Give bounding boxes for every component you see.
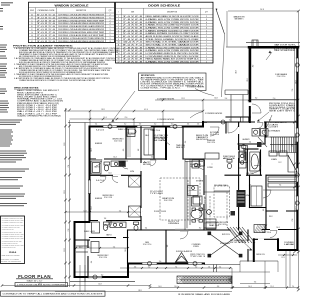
svg-text:6'-8: 6'-8 <box>138 149 140 152</box>
left section exterior <box>75 122 298 278</box>
great room tray <box>160 178 200 220</box>
wind zone notes <box>14 88 63 118</box>
svg-text:1: 1 <box>110 26 111 28</box>
svg-text:SHELF + ROD: SHELF + ROD <box>84 231 95 233</box>
svg-text:11'-0: 11'-0 <box>64 142 66 145</box>
svg-text:1: 1 <box>206 16 207 18</box>
svg-text:SEE INT ELEV: SEE INT ELEV <box>196 139 208 141</box>
svg-text:6'-4: 6'-4 <box>145 227 148 229</box>
svg-text:5'-4: 5'-4 <box>249 141 252 143</box>
svg-text:PORCH: PORCH <box>193 246 198 248</box>
svg-text:LOUVERED BIFOLD WOOD DOOR: LOUVERED BIFOLD WOOD DOOR <box>146 56 201 58</box>
svg-text:BEDROOM 3: BEDROOM 3 <box>113 139 124 141</box>
svg-text:2: 2 <box>118 19 119 21</box>
svg-text:4'-4: 4'-4 <box>91 261 93 264</box>
svg-text:6'-0 X 5'-0: 6'-0 X 5'-0 <box>37 29 55 31</box>
svg-text:24'-8: 24'-8 <box>38 284 41 286</box>
svg-text:ROOF ZONE 3 +16.0 / -65.4 PSF: ROOF ZONE 3 +16.0 / -65.4 PSF <box>17 109 57 111</box>
svg-text:SEE STRUCT NOTES: SEE STRUCT NOTES <box>2 255 20 257</box>
leader arrow <box>216 9 225 34</box>
svg-text:5'-0: 5'-0 <box>159 261 162 263</box>
pantry shelves <box>240 146 248 163</box>
svg-text:5'-4: 5'-4 <box>219 266 222 268</box>
svg-text:COVERED: COVERED <box>192 244 202 246</box>
svg-text:3: 3 <box>206 27 207 29</box>
svg-text:W/ STUCCO: W/ STUCCO <box>230 242 248 244</box>
door schedule table <box>116 2 214 63</box>
svg-text:10'-4: 10'-4 <box>276 227 279 229</box>
svg-text:8X8 COL: 8X8 COL <box>222 234 230 236</box>
svg-text:21'-4 X 21'-0: 21'-4 X 21'-0 <box>277 76 286 78</box>
svg-text:OPENING SIZE: OPENING SIZE <box>38 10 55 12</box>
svg-text:7'-4: 7'-4 <box>175 266 178 268</box>
svg-text:W.I.C.: W.I.C. <box>131 133 136 135</box>
svg-text:LOUVERED BIFOLD WOOD DOOR: LOUVERED BIFOLD WOOD DOOR <box>146 53 201 55</box>
svg-text:3'-0 X 2'-0: 3'-0 X 2'-0 <box>37 32 55 34</box>
svg-text:5'-0: 5'-0 <box>229 119 232 121</box>
svg-text:2: 2 <box>206 59 207 61</box>
svg-text:12'-8: 12'-8 <box>64 190 66 193</box>
svg-text:1: 1 <box>206 39 207 41</box>
svg-text:DESCRIPTION: DESCRIPTION <box>167 12 177 14</box>
svg-text:9-4 CLG: 9-4 CLG <box>96 180 104 182</box>
plan note texts <box>96 44 296 258</box>
svg-text:30'-8: 30'-8 <box>236 70 238 73</box>
master bath fixtures <box>227 151 297 172</box>
interior walls right section <box>183 117 297 230</box>
svg-text:2: 2 <box>206 50 207 52</box>
svg-text:6'-8: 6'-8 <box>292 219 294 222</box>
svg-text:1: 1 <box>206 33 207 35</box>
svg-text:12'-0: 12'-0 <box>108 173 111 175</box>
svg-text:7'-6: 7'-6 <box>279 184 282 186</box>
closet shelves <box>210 177 296 226</box>
svg-text:10'-4: 10'-4 <box>113 156 116 158</box>
svg-text:2'-8 X 6'-8: 2'-8 X 6'-8 <box>123 39 142 41</box>
svg-text:15: 15 <box>118 56 120 58</box>
porch step hatch <box>177 276 232 284</box>
svg-text:8'-0: 8'-0 <box>253 65 255 68</box>
svg-text:9'-0: 9'-0 <box>292 89 294 92</box>
svg-text:3: 3 <box>110 41 111 43</box>
door arcs <box>96 104 277 239</box>
stairs <box>257 137 297 153</box>
wall dim texts <box>91 78 282 276</box>
svg-text:1: 1 <box>206 53 207 55</box>
bath 2 fixtures <box>92 222 139 233</box>
svg-text:WINDOW SCHEDULE: WINDOW SCHEDULE <box>55 3 89 7</box>
svg-text:2'-0 X 6'-8: 2'-0 X 6'-8 <box>123 53 142 55</box>
svg-text:3'-0 X 5'-0: 3'-0 X 5'-0 <box>37 41 55 43</box>
svg-text:4'-0 X 6'-8: 4'-0 X 6'-8 <box>123 56 142 58</box>
svg-text:4'-8: 4'-8 <box>187 124 190 126</box>
svg-text:2: 2 <box>110 14 111 16</box>
svg-text:5'-6: 5'-6 <box>113 246 115 248</box>
svg-text:BEDROOM 4: BEDROOM 4 <box>103 195 114 197</box>
svg-text:16'-0 X 7'-0: 16'-0 X 7'-0 <box>123 42 142 44</box>
svg-text:7: 7 <box>118 33 119 35</box>
svg-text:2'-0: 2'-0 <box>273 98 276 100</box>
kitchen counters <box>185 160 216 229</box>
svg-text:8'-0: 8'-0 <box>125 117 128 119</box>
svg-text:FOYER: FOYER <box>210 132 219 134</box>
svg-text:14'-8: 14'-8 <box>98 284 101 286</box>
svg-text:1: 1 <box>110 38 111 40</box>
svg-text:8'-0 X 5'-0: 8'-0 X 5'-0 <box>37 38 55 40</box>
svg-text:5: 5 <box>118 27 119 29</box>
svg-text:16-0 X 7-0 OH DOOR: 16-0 X 7-0 OH DOOR <box>274 46 295 48</box>
svg-text:9'-4: 9'-4 <box>225 98 228 100</box>
svg-text:KITCHEN: KITCHEN <box>196 181 204 183</box>
svg-text:24'-8: 24'-8 <box>260 9 264 11</box>
svg-text:21'-8: 21'-8 <box>181 98 184 100</box>
exterior walls garage <box>226 40 298 250</box>
bath 3 fixtures <box>91 161 126 174</box>
fireplace <box>254 225 267 233</box>
svg-text:9'-8: 9'-8 <box>254 282 257 284</box>
svg-text:SEE DET: SEE DET <box>176 147 185 149</box>
kitchen <box>185 153 230 230</box>
svg-text:GREAT ROOM: GREAT ROOM <box>162 197 175 200</box>
svg-text:4: 4 <box>206 22 207 24</box>
svg-text:12'-0 X 12'-0: 12'-0 X 12'-0 <box>143 244 152 246</box>
svg-text:1: 1 <box>206 61 207 63</box>
svg-text:SEE DET SHT 5: SEE DET SHT 5 <box>269 111 296 113</box>
powder room <box>241 145 246 149</box>
svg-text:5'-4: 5'-4 <box>119 210 122 212</box>
svg-text:10: 10 <box>118 42 120 44</box>
porch triangles <box>176 253 188 263</box>
svg-text:9: 9 <box>206 19 207 21</box>
svg-text:SIZE: SIZE <box>131 12 134 14</box>
nook table <box>191 208 203 222</box>
svg-text:17: 17 <box>118 61 120 63</box>
svg-text:W.I.C.: W.I.C. <box>79 247 84 249</box>
svg-text:6'-0: 6'-0 <box>101 274 104 276</box>
svg-text:3'-0 X 5'-0: 3'-0 X 5'-0 <box>37 23 55 25</box>
svg-text:3'-0 X 5'-0: 3'-0 X 5'-0 <box>37 17 55 19</box>
interior walls left section <box>75 127 231 278</box>
svg-text:2: 2 <box>206 25 207 27</box>
svg-text:PROTECTION AGAINST TERMITES:: PROTECTION AGAINST TERMITES: <box>13 44 73 47</box>
svg-text:EGRESS: EGRESS <box>95 198 102 200</box>
svg-text:5'-8: 5'-8 <box>139 124 142 126</box>
svg-text:6'-4: 6'-4 <box>68 165 70 168</box>
svg-text:9-4 CLG: 9-4 CLG <box>96 130 104 132</box>
svg-text:10'-8: 10'-8 <box>214 97 217 99</box>
svg-text:2'-8 X 6'-8: 2'-8 X 6'-8 <box>123 19 142 21</box>
floor plan title <box>1 274 231 296</box>
svg-text:1: 1 <box>110 35 111 37</box>
svg-text:1: 1 <box>206 56 207 58</box>
svg-text:4'-8: 4'-8 <box>134 266 137 268</box>
svg-text:W.I.C.: W.I.C. <box>269 216 274 218</box>
svg-text:12'-4 CLG HT: 12'-4 CLG HT <box>150 191 163 193</box>
svg-text:2'-0: 2'-0 <box>292 286 294 288</box>
porch X braces and posts <box>208 232 243 258</box>
svg-text:11'-0 X 11'-0: 11'-0 X 11'-0 <box>114 141 122 143</box>
svg-text:3'-0: 3'-0 <box>195 266 197 268</box>
svg-text:DESCRIPTION: DESCRIPTION <box>76 10 86 12</box>
svg-text:10'-8: 10'-8 <box>91 148 93 151</box>
svg-text:16: 16 <box>118 59 120 61</box>
svg-text:2'-8: 2'-8 <box>197 124 200 126</box>
svg-text:8'-8: 8'-8 <box>239 204 241 207</box>
svg-text:4'-0: 4'-0 <box>154 124 157 126</box>
svg-text:SEE SHEET 5: SEE SHEET 5 <box>235 19 244 21</box>
svg-text:16X16 COL: 16X16 COL <box>256 254 265 256</box>
svg-text:12'-0 X 11'-0: 12'-0 X 11'-0 <box>99 257 107 259</box>
svg-text:10'-0: 10'-0 <box>125 248 127 251</box>
svg-text:4'-8: 4'-8 <box>249 184 252 186</box>
svg-text:6'-0 X 6'-8: 6'-0 X 6'-8 <box>123 36 142 38</box>
svg-text:11'-4: 11'-4 <box>91 206 93 209</box>
svg-text:9'-8: 9'-8 <box>104 218 107 220</box>
svg-text:3'-0 X 6'-8: 3'-0 X 6'-8 <box>123 16 142 18</box>
svg-text:LIN: LIN <box>245 195 249 197</box>
svg-text:SEE SCHEDULE: SEE SCHEDULE <box>274 50 295 52</box>
svg-text:5'-6: 5'-6 <box>185 141 187 144</box>
svg-text:21'-0: 21'-0 <box>247 78 249 81</box>
window tags <box>93 63 299 279</box>
svg-text:2: 2 <box>206 30 207 32</box>
svg-text:WDW: WDW <box>30 10 34 12</box>
svg-text:2'-0 X 6'-8: 2'-0 X 6'-8 <box>123 27 142 29</box>
svg-text:10'-0: 10'-0 <box>158 286 161 288</box>
svg-text:1: 1 <box>110 29 111 31</box>
svg-text:12'-4: 12'-4 <box>281 257 284 259</box>
svg-text:5'-8: 5'-8 <box>151 156 154 158</box>
svg-text:6'-8: 6'-8 <box>269 119 272 121</box>
svg-text:FOYER: FOYER <box>207 167 213 169</box>
termite protection notes <box>13 44 118 82</box>
svg-text:2: 2 <box>110 32 111 34</box>
leader notes extra <box>84 129 265 256</box>
svg-text:11'-2: 11'-2 <box>279 162 282 164</box>
svg-text:16-3 X 7-8: 16-3 X 7-8 <box>168 221 179 223</box>
svg-text:OPENING: OPENING <box>168 223 179 225</box>
svg-text:W/ R-19 INSUL COVER: W/ R-19 INSUL COVER <box>269 107 295 109</box>
svg-text:6: 6 <box>118 30 119 32</box>
svg-text:2'-4 X 6'-8: 2'-4 X 6'-8 <box>123 25 142 27</box>
svg-text:4'-0 X 6'-8: 4'-0 X 6'-8 <box>123 30 142 32</box>
svg-text:12'-0 X 11'-8: 12'-0 X 11'-8 <box>104 197 112 199</box>
svg-text:1: 1 <box>206 36 207 38</box>
svg-text:DOOR SCHEDULE: DOOR SCHEDULE <box>148 4 180 8</box>
roof overhang lines <box>68 43 300 282</box>
svg-text:COVERED: COVERED <box>284 242 294 244</box>
svg-text:5'-2: 5'-2 <box>114 237 117 239</box>
svg-text:2'-8 X 6'-8: 2'-8 X 6'-8 <box>123 47 142 49</box>
svg-text:12'-0: 12'-0 <box>201 208 203 211</box>
svg-text:PROVIDE 22X54 PULL: PROVIDE 22X54 PULL <box>269 103 295 105</box>
svg-text:2'-0 X 5'-0: 2'-0 X 5'-0 <box>37 26 55 28</box>
svg-text:16'-4: 16'-4 <box>248 286 251 288</box>
svg-text:8-0 X 7-0 OH DOOR: 8-0 X 7-0 OH DOOR <box>274 48 295 50</box>
svg-text:6'-0 X 5'-0: 6'-0 X 5'-0 <box>37 14 55 16</box>
laundry washer dryer <box>252 129 268 137</box>
svg-text:12'-4: 12'-4 <box>270 286 273 288</box>
svg-text:WIND ZONE NOTES:: WIND ZONE NOTES: <box>14 88 39 90</box>
svg-text:11: 11 <box>118 44 120 46</box>
svg-text:J: J <box>32 38 33 40</box>
svg-text:4: 4 <box>110 23 111 25</box>
svg-text:41'-4: 41'-4 <box>144 109 148 111</box>
svg-text:12X12 CONC COL: 12X12 CONC COL <box>190 254 205 256</box>
svg-text:11'-8: 11'-8 <box>64 248 66 251</box>
svg-text:3'-0: 3'-0 <box>255 97 258 99</box>
svg-text:19'-0: 19'-0 <box>174 286 177 288</box>
diagonal stairs <box>227 227 255 251</box>
svg-text:ROOF ZONE 1 +16.0 / -25.4 PSF: ROOF ZONE 1 +16.0 / -25.4 PSF <box>17 105 57 107</box>
svg-text:13-4 CLG: 13-4 CLG <box>210 134 219 136</box>
svg-text:POCKET DOOR: POCKET DOOR <box>154 211 166 213</box>
note box <box>0 216 25 264</box>
svg-text:8'-0 X 7'-0: 8'-0 X 7'-0 <box>123 44 142 46</box>
svg-text:TYP OF 3: TYP OF 3 <box>190 256 206 258</box>
svg-text:2'-6 X 6'-8: 2'-6 X 6'-8 <box>123 50 142 52</box>
svg-text:38'-8: 38'-8 <box>138 290 141 292</box>
svg-text:SHELF + ROD: SHELF + ROD <box>118 129 129 131</box>
svg-text:8: 8 <box>118 36 119 38</box>
svg-text:1: 1 <box>206 42 207 44</box>
svg-text:EGRESS: EGRESS <box>95 143 102 145</box>
svg-text:14'-0 X 16'-8: 14'-0 X 16'-8 <box>218 224 227 226</box>
entry porch walk <box>225 90 248 122</box>
svg-text:5'-4: 5'-4 <box>95 124 98 126</box>
master tray <box>214 186 235 217</box>
svg-text:2'-0 X 3'-0: 2'-0 X 3'-0 <box>37 20 55 22</box>
svg-text:RETURN: RETURN <box>143 164 151 166</box>
svg-text:9'-8: 9'-8 <box>167 245 169 248</box>
svg-text:12FT CLG: 12FT CLG <box>262 232 271 234</box>
svg-text:8'-0: 8'-0 <box>199 227 202 229</box>
svg-text:18'-8: 18'-8 <box>101 109 104 111</box>
svg-text:9: 9 <box>118 39 119 41</box>
svg-text:5'-0: 5'-0 <box>148 266 151 268</box>
window schedule table <box>29 2 115 43</box>
svg-text:4'-0: 4'-0 <box>123 149 125 152</box>
svg-text:DINING RM: DINING RM <box>207 140 216 142</box>
svg-text:1: 1 <box>206 47 207 49</box>
svg-text:3: 3 <box>118 22 119 24</box>
svg-text:5'-0 X 6'-8: 5'-0 X 6'-8 <box>123 33 142 35</box>
svg-text:3'-0: 3'-0 <box>124 124 127 126</box>
svg-text:ROOF ZONE 2 +16.0 / -44.2 PSF: ROOF ZONE 2 +16.0 / -44.2 PSF <box>17 107 57 109</box>
svg-text:2'-0 X 2'-0: 2'-0 X 2'-0 <box>37 35 55 37</box>
svg-text:2'-6 X 6'-8: 2'-6 X 6'-8 <box>123 22 142 24</box>
svg-text:6'-0: 6'-0 <box>263 209 265 212</box>
svg-text:19'-4 X 23'-8: 19'-4 X 23'-8 <box>164 200 173 202</box>
left margin notes <box>0 45 29 207</box>
svg-text:4: 4 <box>118 25 119 27</box>
svg-text:TYP UNO: TYP UNO <box>150 193 165 195</box>
extra fixtures <box>76 164 212 253</box>
svg-text:BEDROOM 2: BEDROOM 2 <box>98 255 109 257</box>
svg-text:1: 1 <box>206 44 207 46</box>
svg-text:2'-8 X 6'-8: 2'-8 X 6'-8 <box>123 61 142 63</box>
svg-text:6: 6 <box>110 17 111 19</box>
svg-text:2'-8: 2'-8 <box>208 266 210 268</box>
svg-text:QTY: QTY <box>108 10 111 12</box>
svg-text:11'-4 X 12'-0: 11'-4 X 12'-0 <box>207 142 215 144</box>
edge ticks top left <box>0 2 13 29</box>
svg-text:6'-8: 6'-8 <box>217 286 220 288</box>
svg-text:3'-0 X 6'-8: 3'-0 X 6'-8 <box>123 59 142 61</box>
wic closet braces <box>127 128 153 218</box>
svg-text:SCREENED: SCREENED <box>220 243 230 245</box>
svg-text:BUILT-IN: BUILT-IN <box>196 135 208 137</box>
svg-text:FLOOR PLAN: FLOOR PLAN <box>18 274 51 279</box>
svg-text:QTY: QTY <box>205 12 208 14</box>
right wall windows <box>296 58 299 210</box>
svg-text:2: 2 <box>110 20 111 22</box>
svg-text:5'-8: 5'-8 <box>68 229 70 232</box>
svg-text:1: 1 <box>118 16 119 18</box>
svg-text:LIN: LIN <box>130 171 134 173</box>
room labels <box>79 16 287 260</box>
svg-text:SCALE: 1/4" = 1'-0": SCALE: 1/4" = 1'-0" <box>27 280 43 283</box>
svg-text:CLOSET: CLOSET <box>268 126 278 128</box>
